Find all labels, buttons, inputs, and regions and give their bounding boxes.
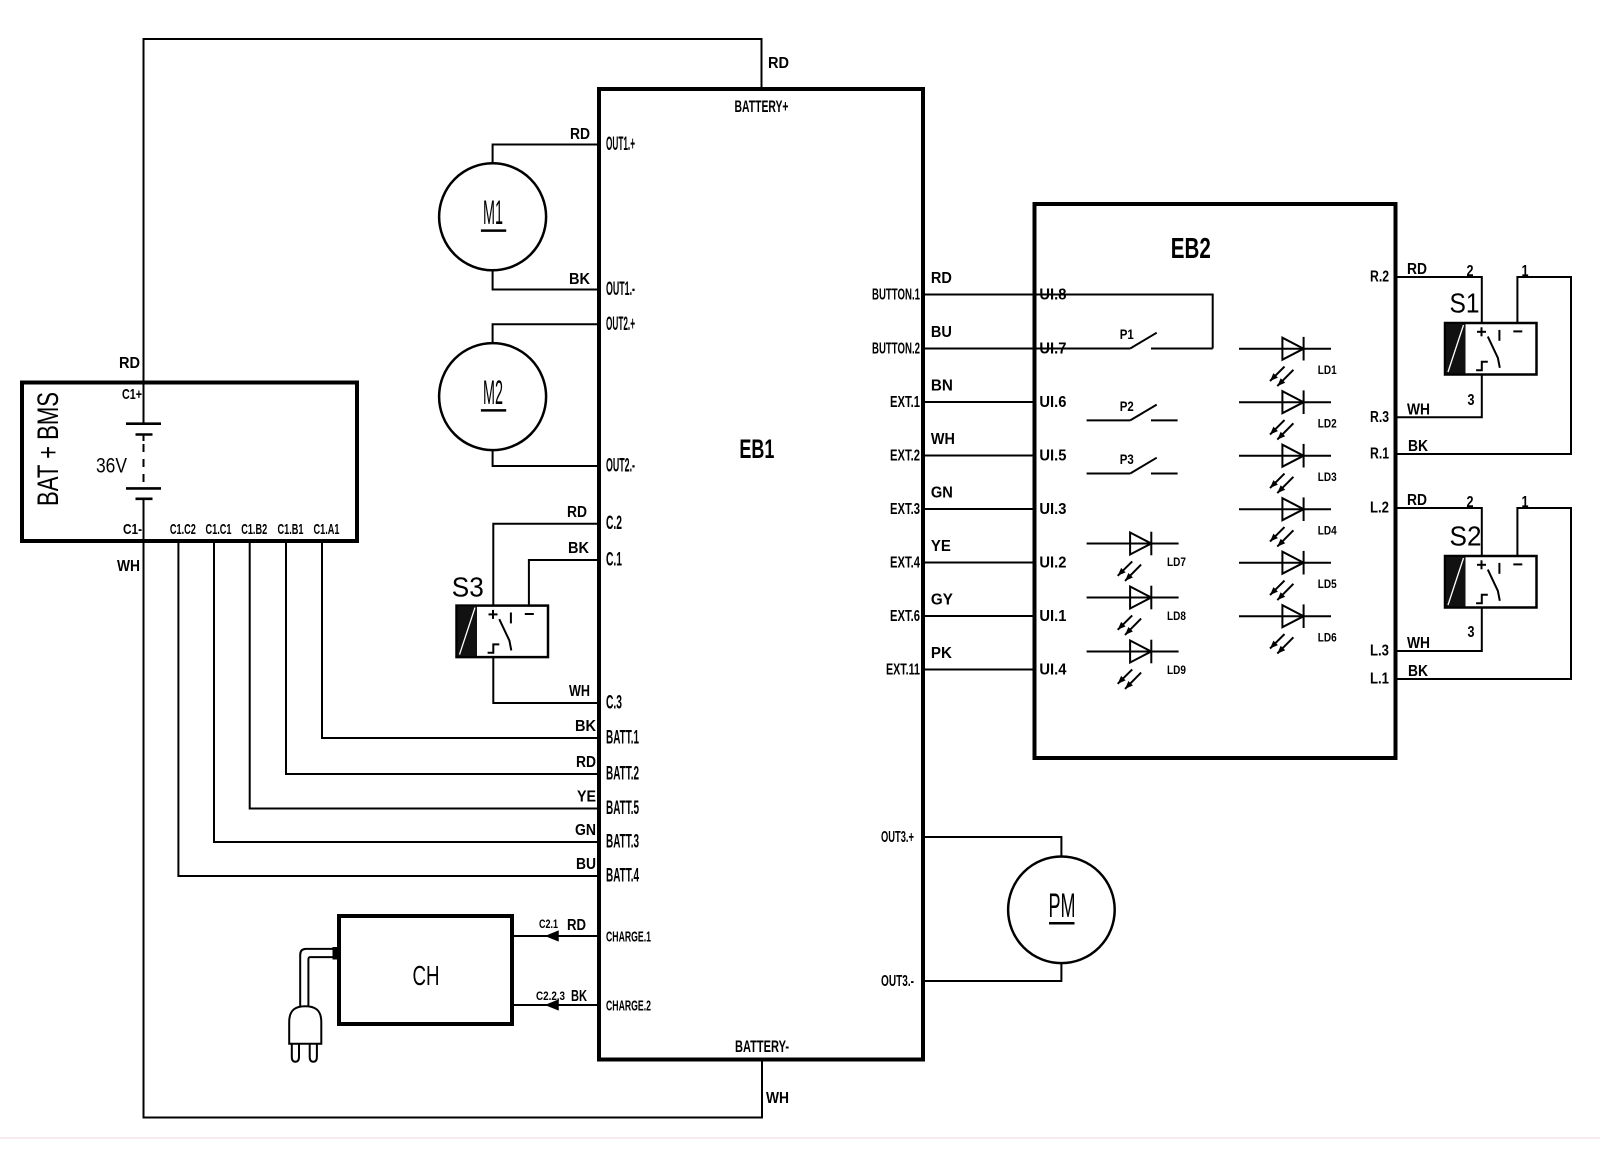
svg-text:LD1: LD1 — [1318, 363, 1337, 377]
wire BK BATT.1 — [322, 541, 599, 738]
svg-text:WH: WH — [1407, 635, 1430, 652]
svg-text:PM: PM — [1049, 887, 1076, 925]
controller EB1 — [599, 89, 923, 1060]
wire BN EXT.1 to UI.6 — [923, 378, 1035, 403]
svg-text:WH: WH — [766, 1090, 789, 1107]
svg-text:S2: S2 — [1450, 521, 1482, 552]
wire OUT3.+ to PM — [923, 837, 1061, 857]
svg-text:WH: WH — [931, 431, 955, 448]
wire RD BATT.2 — [286, 541, 599, 774]
svg-text:CHARGE.1: CHARGE.1 — [606, 929, 651, 946]
wire BK C.1 to S3 — [529, 540, 599, 606]
wire RD R.2 to S1 pin 2 — [1396, 261, 1482, 323]
svg-text:L.3: L.3 — [1370, 643, 1389, 660]
wire YE BATT.5 — [250, 541, 599, 809]
battery cell symbol 36V — [96, 383, 161, 542]
LED LD9 — [1087, 640, 1187, 689]
LED LD1 — [1239, 337, 1337, 386]
svg-text:R.2: R.2 — [1370, 269, 1389, 286]
svg-text:LD9: LD9 — [1167, 663, 1186, 677]
LED LD6 — [1239, 604, 1337, 653]
svg-text:LD4: LD4 — [1318, 524, 1337, 538]
motor M2 — [439, 343, 546, 450]
svg-text:BK: BK — [1408, 438, 1428, 455]
wire BK S2 pin 1 to L.1 — [1396, 508, 1572, 680]
svg-text:L.2: L.2 — [1370, 500, 1389, 517]
svg-text:3: 3 — [1468, 392, 1475, 409]
svg-text:UI.4: UI.4 — [1039, 662, 1066, 679]
svg-text:OUT2.-: OUT2.- — [606, 456, 635, 477]
wire RD BUTTON.1 to UI.8 — [923, 270, 1035, 295]
svg-text:OUT3.+: OUT3.+ — [881, 829, 914, 846]
wire GN BATT.3 — [214, 541, 599, 842]
key switch S2 — [1445, 521, 1537, 608]
pushbutton P1 — [1120, 326, 1213, 349]
wire PM to OUT3.- — [923, 963, 1061, 981]
svg-text:BATT.5: BATT.5 — [606, 798, 639, 819]
svg-text:BAT + BMS: BAT + BMS — [32, 392, 65, 506]
svg-text:LD6: LD6 — [1318, 631, 1337, 645]
wire PK EXT.11 to UI.4 — [923, 645, 1035, 670]
svg-text:C1.B1: C1.B1 — [278, 521, 304, 538]
svg-text:36V: 36V — [96, 455, 127, 478]
svg-text:GN: GN — [575, 822, 596, 839]
svg-text:M1: M1 — [483, 194, 503, 232]
svg-text:UI.5: UI.5 — [1039, 448, 1066, 465]
LED LD3 — [1239, 444, 1337, 493]
LED LD7 — [1087, 532, 1187, 581]
svg-text:C1.C2: C1.C2 — [170, 521, 196, 538]
wire WH EXT.2 to UI.5 — [923, 431, 1035, 456]
motor M1 — [439, 163, 546, 270]
wire OUT2.+ to M2 — [493, 324, 599, 343]
svg-text:R.1: R.1 — [1370, 446, 1389, 463]
svg-text:BK: BK — [571, 988, 587, 1005]
svg-text:RD: RD — [931, 270, 952, 287]
svg-text:OUT2.+: OUT2.+ — [606, 314, 635, 335]
svg-text:YE: YE — [577, 789, 596, 806]
svg-text:C1.B2: C1.B2 — [241, 521, 267, 538]
wire RD OUT1.+ to M1 — [493, 126, 599, 164]
svg-text:RD: RD — [1407, 261, 1427, 278]
wire RD C.2 to S3 — [493, 504, 599, 606]
svg-text:EXT.3: EXT.3 — [890, 501, 920, 518]
LED LD2 — [1239, 390, 1337, 439]
svg-text:P2: P2 — [1120, 398, 1134, 414]
wire WH battery C1- to EB1 BATTERY- — [117, 541, 789, 1118]
svg-text:C1+: C1+ — [122, 386, 142, 403]
svg-text:RD: RD — [570, 126, 590, 143]
wire RD L.2 to S2 pin 2 — [1396, 492, 1482, 556]
svg-text:C2.2,3: C2.2,3 — [536, 989, 565, 1003]
svg-text:S3: S3 — [452, 572, 484, 603]
svg-text:LD5: LD5 — [1318, 577, 1337, 591]
wire GY EXT.6 to UI.1 — [923, 592, 1035, 617]
svg-text:LD8: LD8 — [1167, 609, 1186, 623]
svg-text:BUTTON.1: BUTTON.1 — [872, 287, 920, 304]
svg-text:C1-: C1- — [123, 521, 142, 538]
wire BU BUTTON.2 to UI.7 — [923, 324, 1035, 349]
wire RD CHARGE.1 to CH — [512, 917, 599, 941]
svg-text:EXT.1: EXT.1 — [890, 394, 920, 411]
svg-text:WH: WH — [117, 558, 140, 575]
wire RD battery C1+ to EB1 BATTERY+ — [119, 39, 789, 381]
charger CH — [339, 916, 512, 1024]
key switch S1 — [1445, 288, 1537, 375]
svg-text:BK: BK — [575, 718, 596, 735]
svg-text:CHARGE.2: CHARGE.2 — [606, 998, 651, 1015]
svg-text:C1.C1: C1.C1 — [206, 521, 232, 538]
svg-text:L.1: L.1 — [1370, 671, 1389, 688]
svg-text:2: 2 — [1467, 494, 1474, 511]
svg-text:RD: RD — [567, 917, 586, 934]
svg-text:RD: RD — [576, 754, 596, 771]
svg-text:P3: P3 — [1120, 451, 1134, 467]
svg-text:LD2: LD2 — [1318, 417, 1337, 431]
svg-text:M2: M2 — [483, 374, 503, 412]
svg-text:EB1: EB1 — [739, 434, 774, 464]
svg-text:EXT.11: EXT.11 — [886, 662, 920, 679]
svg-text:BATTERY+: BATTERY+ — [735, 97, 789, 116]
svg-text:EB2: EB2 — [1171, 233, 1211, 265]
pushbutton P2 — [1087, 398, 1178, 421]
svg-text:BK: BK — [1408, 663, 1428, 680]
svg-text:RD: RD — [119, 355, 140, 372]
svg-text:WH: WH — [1407, 401, 1430, 418]
svg-text:3: 3 — [1468, 624, 1475, 641]
mains plug — [289, 947, 339, 1062]
svg-text:S1: S1 — [1450, 288, 1480, 319]
svg-text:YE: YE — [931, 538, 951, 555]
svg-text:BATT.3: BATT.3 — [606, 832, 639, 853]
svg-text:C.1: C.1 — [606, 550, 622, 571]
battery pack box BAT + BMS — [22, 383, 357, 542]
svg-text:C.2: C.2 — [606, 513, 622, 534]
LED LD5 — [1239, 551, 1337, 600]
svg-text:BATTERY-: BATTERY- — [735, 1037, 789, 1056]
wire WH R.3 to S1 pin 3 — [1396, 375, 1482, 419]
svg-text:RD: RD — [768, 55, 789, 72]
wire BK CHARGE.2 to CH — [512, 988, 599, 1010]
svg-text:LD7: LD7 — [1167, 555, 1186, 569]
svg-text:EXT.4: EXT.4 — [890, 555, 920, 572]
svg-text:RD: RD — [567, 504, 587, 521]
svg-text:BU: BU — [576, 856, 596, 873]
svg-text:UI.6: UI.6 — [1039, 394, 1066, 411]
svg-text:UI.1: UI.1 — [1039, 608, 1066, 625]
wire BU BATT.4 — [178, 541, 599, 876]
svg-text:OUT1.+: OUT1.+ — [606, 134, 635, 155]
svg-text:GN: GN — [931, 485, 953, 502]
wire UI.7 internal to P1 — [1035, 348, 1131, 350]
wire WH S3 to C.3 — [493, 657, 599, 703]
svg-text:EXT.6: EXT.6 — [890, 608, 920, 625]
svg-text:EXT.2: EXT.2 — [890, 448, 920, 465]
wire YE EXT.4 to UI.2 — [923, 538, 1035, 563]
svg-text:GY: GY — [931, 592, 953, 609]
pushbutton P3 — [1087, 451, 1178, 474]
svg-text:C1.A1: C1.A1 — [314, 521, 340, 538]
svg-text:R.3: R.3 — [1370, 409, 1389, 426]
svg-text:BATT.1: BATT.1 — [606, 728, 639, 749]
svg-text:C2.1: C2.1 — [539, 917, 558, 931]
wire WH L.3 to S2 pin 3 — [1396, 608, 1482, 652]
svg-text:CH: CH — [413, 960, 440, 991]
svg-text:LD3: LD3 — [1318, 470, 1337, 484]
wire BK S1 pin 1 to R.1 — [1396, 277, 1572, 455]
svg-text:BK: BK — [568, 540, 589, 557]
svg-text:BN: BN — [931, 378, 953, 395]
svg-text:UI.2: UI.2 — [1039, 555, 1066, 572]
svg-text:PK: PK — [931, 645, 952, 662]
display unit EB2 — [1035, 204, 1396, 758]
svg-text:UI.3: UI.3 — [1039, 501, 1066, 518]
key switch S3 — [452, 572, 548, 658]
wire BK M1 to OUT1.- — [493, 270, 599, 289]
svg-text:BK: BK — [569, 271, 590, 288]
wire M2 to OUT2.- — [493, 450, 599, 466]
svg-text:WH: WH — [569, 683, 590, 700]
svg-text:RD: RD — [1407, 492, 1427, 509]
svg-text:OUT1.-: OUT1.- — [606, 279, 635, 300]
svg-text:BUTTON.2: BUTTON.2 — [872, 341, 920, 358]
svg-text:OUT3.-: OUT3.- — [881, 973, 914, 990]
svg-text:BATT.4: BATT.4 — [606, 866, 639, 887]
wire GN EXT.3 to UI.3 — [923, 485, 1035, 510]
LED LD4 — [1239, 497, 1337, 546]
svg-text:P1: P1 — [1120, 326, 1134, 342]
svg-text:C.3: C.3 — [606, 693, 622, 714]
LED LD8 — [1087, 586, 1187, 635]
svg-text:BATT.2: BATT.2 — [606, 764, 639, 785]
svg-text:2: 2 — [1467, 263, 1474, 280]
wire UI.8 internal to P1 — [1035, 295, 1213, 349]
svg-text:BU: BU — [931, 324, 952, 341]
motor PM — [1008, 857, 1115, 964]
